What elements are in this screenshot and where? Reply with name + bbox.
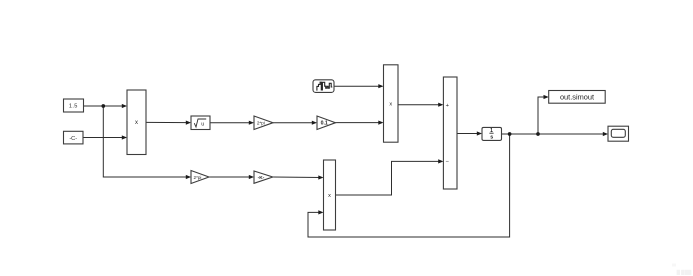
svg-text:s: s (490, 134, 493, 140)
svg-text:2*pi: 2*pi (194, 175, 202, 180)
svg-text:u: u (201, 121, 204, 127)
svg-text:2*pi: 2*pi (257, 121, 265, 126)
svg-text:x: x (328, 193, 331, 199)
svg-text:0.1: 0.1 (321, 121, 328, 127)
svg-text:-K-: -K- (258, 175, 265, 181)
svg-text:-C-: -C- (69, 136, 77, 142)
svg-text:1: 1 (490, 128, 493, 134)
svg-text:out.simout: out.simout (560, 93, 594, 102)
svg-text:1.5: 1.5 (69, 104, 78, 110)
svg-text:x: x (389, 102, 392, 108)
svg-text:x: x (135, 120, 138, 126)
